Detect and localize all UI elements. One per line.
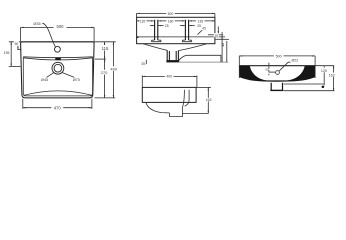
dim 115/270 arrows bbox=[104, 42, 105, 98]
svg-text:45: 45 bbox=[202, 27, 206, 31]
dim 470 line bbox=[23, 107, 92, 109]
drain outer circle bbox=[52, 62, 64, 74]
slot 2 foot bbox=[182, 40, 191, 42]
svg-text:500: 500 bbox=[168, 12, 174, 16]
svg-text:195: 195 bbox=[4, 51, 10, 55]
svg-text:25: 25 bbox=[197, 24, 201, 28]
drain black bottom mid view bbox=[166, 60, 179, 62]
leader for faucet dia35 bbox=[42, 23, 55, 47]
dim 120 end dot bbox=[322, 86, 325, 89]
dim 400 vertical bbox=[112, 42, 114, 98]
faucet hole circle bbox=[55, 46, 61, 52]
drain walls mid view bbox=[167, 50, 178, 62]
svg-text:500: 500 bbox=[276, 54, 282, 58]
connector to circle bbox=[269, 71, 276, 73]
dim 500 line mid view bbox=[137, 12, 215, 14]
dim 470 arrows bbox=[23, 107, 92, 108]
svg-text:180: 180 bbox=[168, 20, 174, 24]
mid ext line y84 bbox=[284, 83, 324, 85]
body left edge bbox=[238, 56, 240, 78]
dim 162 bottom ext bbox=[183, 112, 209, 114]
rear ledge band bottom line bbox=[23, 58, 93, 60]
dim line x226.8 bbox=[226, 41, 228, 62]
svg-text:162: 162 bbox=[206, 98, 212, 102]
dim 500 ext verticals mid bbox=[137, 13, 215, 17]
dim 195 arrows bbox=[11, 42, 12, 67]
outer rect bbox=[137, 17, 215, 43]
svg-text:400: 400 bbox=[110, 66, 117, 71]
dims row1 lines bbox=[137, 20, 215, 22]
tick for 35 bbox=[145, 60, 147, 64]
baseline under mid view bbox=[179, 61, 228, 63]
svg-text:Ø45: Ø45 bbox=[41, 78, 48, 82]
dim 500 arrows bbox=[21, 27, 95, 28]
dim 162 side arrows bbox=[208, 87, 209, 113]
body right edge bbox=[314, 56, 316, 78]
dim 400 line bbox=[142, 75, 197, 77]
bowl curve left bbox=[143, 44, 167, 51]
drain stub bottom bbox=[270, 90, 283, 91]
dim 400 arrows bbox=[142, 76, 197, 77]
dim 500 arrows right view bbox=[239, 55, 315, 56]
ext tick at faucet center level bbox=[17, 49, 21, 51]
dim 15 vertical bbox=[218, 27, 222, 63]
dim 270 vertical bbox=[104, 59, 106, 98]
overflow dashed centerline bbox=[268, 63, 270, 76]
pipe inner curve bbox=[185, 90, 190, 106]
basin outer rim outline bbox=[21, 42, 95, 98]
bottom ext right view bbox=[284, 90, 335, 92]
overflow circle dia22 bbox=[276, 71, 280, 75]
slot 1 foot bbox=[152, 40, 162, 42]
dim 50 mini vertical bbox=[17, 46, 19, 50]
slot 1 walls bbox=[155, 20, 158, 40]
top ext right bbox=[316, 65, 335, 67]
rim/bowl tapered band with corner wedges bbox=[240, 66, 316, 82]
label 500 left view bbox=[54, 23, 67, 29]
drain inner circle bbox=[54, 64, 62, 72]
dim 500 arrows mid bbox=[137, 13, 215, 14]
rear ledge band top line bbox=[23, 56, 93, 59]
overflow leader bbox=[279, 62, 290, 71]
dim 500 ext verticals bbox=[21, 27, 95, 41]
small hole dot bbox=[137, 36, 139, 38]
dim 115 vertical bbox=[104, 42, 106, 59]
svg-text:Ø75: Ø75 bbox=[73, 78, 80, 82]
dims row2 lines bbox=[150, 25, 195, 27]
svg-text:50: 50 bbox=[15, 42, 19, 46]
svg-text:500: 500 bbox=[57, 24, 65, 29]
side foot bbox=[169, 107, 182, 117]
svg-text:115: 115 bbox=[102, 46, 109, 51]
dim 162 side: top ext bbox=[197, 86, 211, 88]
rear ledge center black dash bbox=[55, 57, 61, 60]
svg-text:470: 470 bbox=[54, 106, 62, 111]
ext line at y66.4 left bbox=[9, 65, 21, 67]
dim 162 side vertical bbox=[207, 87, 209, 113]
svg-text:50: 50 bbox=[265, 68, 269, 72]
dim 500 line top bbox=[21, 26, 95, 28]
svg-text:Ø22: Ø22 bbox=[292, 59, 299, 63]
inner bowl walls and bottom bbox=[23, 57, 92, 96]
drain stub walls bbox=[271, 83, 282, 91]
ext verticals 400 bbox=[142, 76, 197, 88]
leader 45 bbox=[198, 30, 203, 35]
ext line A y34.8 bbox=[208, 34, 223, 36]
dim 400 arrows bbox=[113, 42, 114, 98]
dim 195 vertical line left bbox=[10, 42, 12, 67]
svg-text:35: 35 bbox=[141, 62, 145, 66]
dim 470 ext verticals bbox=[23, 99, 92, 109]
dim 50 arrow bbox=[17, 47, 18, 49]
dim 500 line right view bbox=[239, 55, 315, 57]
svg-text:25: 25 bbox=[165, 24, 169, 28]
svg-text:Ø35: Ø35 bbox=[33, 22, 40, 26]
svg-text:135: 135 bbox=[140, 20, 146, 24]
inner bowl front curve bbox=[24, 91, 93, 96]
svg-text:15: 15 bbox=[221, 43, 225, 47]
leader dia45 bbox=[47, 73, 54, 78]
side body rect bbox=[142, 87, 196, 102]
label 15 bbox=[214, 33, 219, 38]
label 50 bbox=[14, 41, 19, 46]
dim 162 right arrows bbox=[333, 66, 334, 91]
body top edge bbox=[239, 65, 315, 67]
underside curve and flat to front drop bbox=[179, 55, 221, 62]
svg-text:120: 120 bbox=[321, 69, 327, 73]
row1 arrows bbox=[137, 20, 215, 22]
svg-text:135: 135 bbox=[197, 20, 203, 24]
svg-text:400: 400 bbox=[166, 75, 172, 79]
svg-text:270: 270 bbox=[101, 70, 108, 75]
bowl curve right bbox=[178, 44, 207, 51]
leader dia75 bbox=[62, 73, 74, 78]
svg-text:162: 162 bbox=[329, 73, 335, 77]
label 195 bbox=[3, 51, 11, 56]
apron line across bbox=[137, 36, 226, 38]
top edge extension line across bbox=[9, 41, 116, 43]
bottom edge ext right bbox=[95, 97, 116, 99]
dim 162 right vertical bbox=[333, 66, 335, 91]
ext line at band level right bbox=[95, 58, 106, 60]
pipe outer curve bbox=[183, 90, 185, 107]
dim 120 vertical bbox=[323, 66, 325, 86]
dim 15 arrows bbox=[218, 31, 223, 39]
row2 arrows bbox=[152, 25, 192, 26]
svg-text:15: 15 bbox=[214, 34, 218, 38]
side bowl curve bbox=[146, 102, 170, 113]
slot 2 walls bbox=[185, 20, 188, 40]
ext line y39.3 bbox=[215, 38, 229, 40]
